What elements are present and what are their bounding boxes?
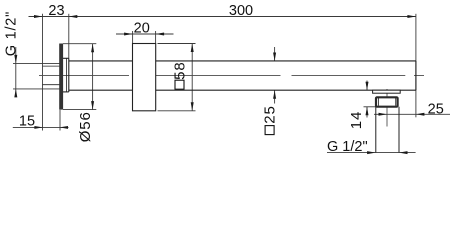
- svg-text:25: 25: [262, 105, 279, 124]
- svg-text:Ø56: Ø56: [77, 111, 94, 142]
- svg-text:23: 23: [48, 3, 64, 19]
- svg-text:G 1/2": G 1/2": [3, 11, 19, 56]
- svg-text:15: 15: [19, 114, 35, 130]
- svg-text:20: 20: [134, 21, 150, 37]
- svg-text:25: 25: [428, 101, 444, 117]
- svg-text:58: 58: [172, 61, 189, 80]
- svg-text:300: 300: [229, 3, 253, 19]
- svg-text:14: 14: [348, 111, 365, 130]
- svg-text:G 1/2": G 1/2": [327, 139, 368, 155]
